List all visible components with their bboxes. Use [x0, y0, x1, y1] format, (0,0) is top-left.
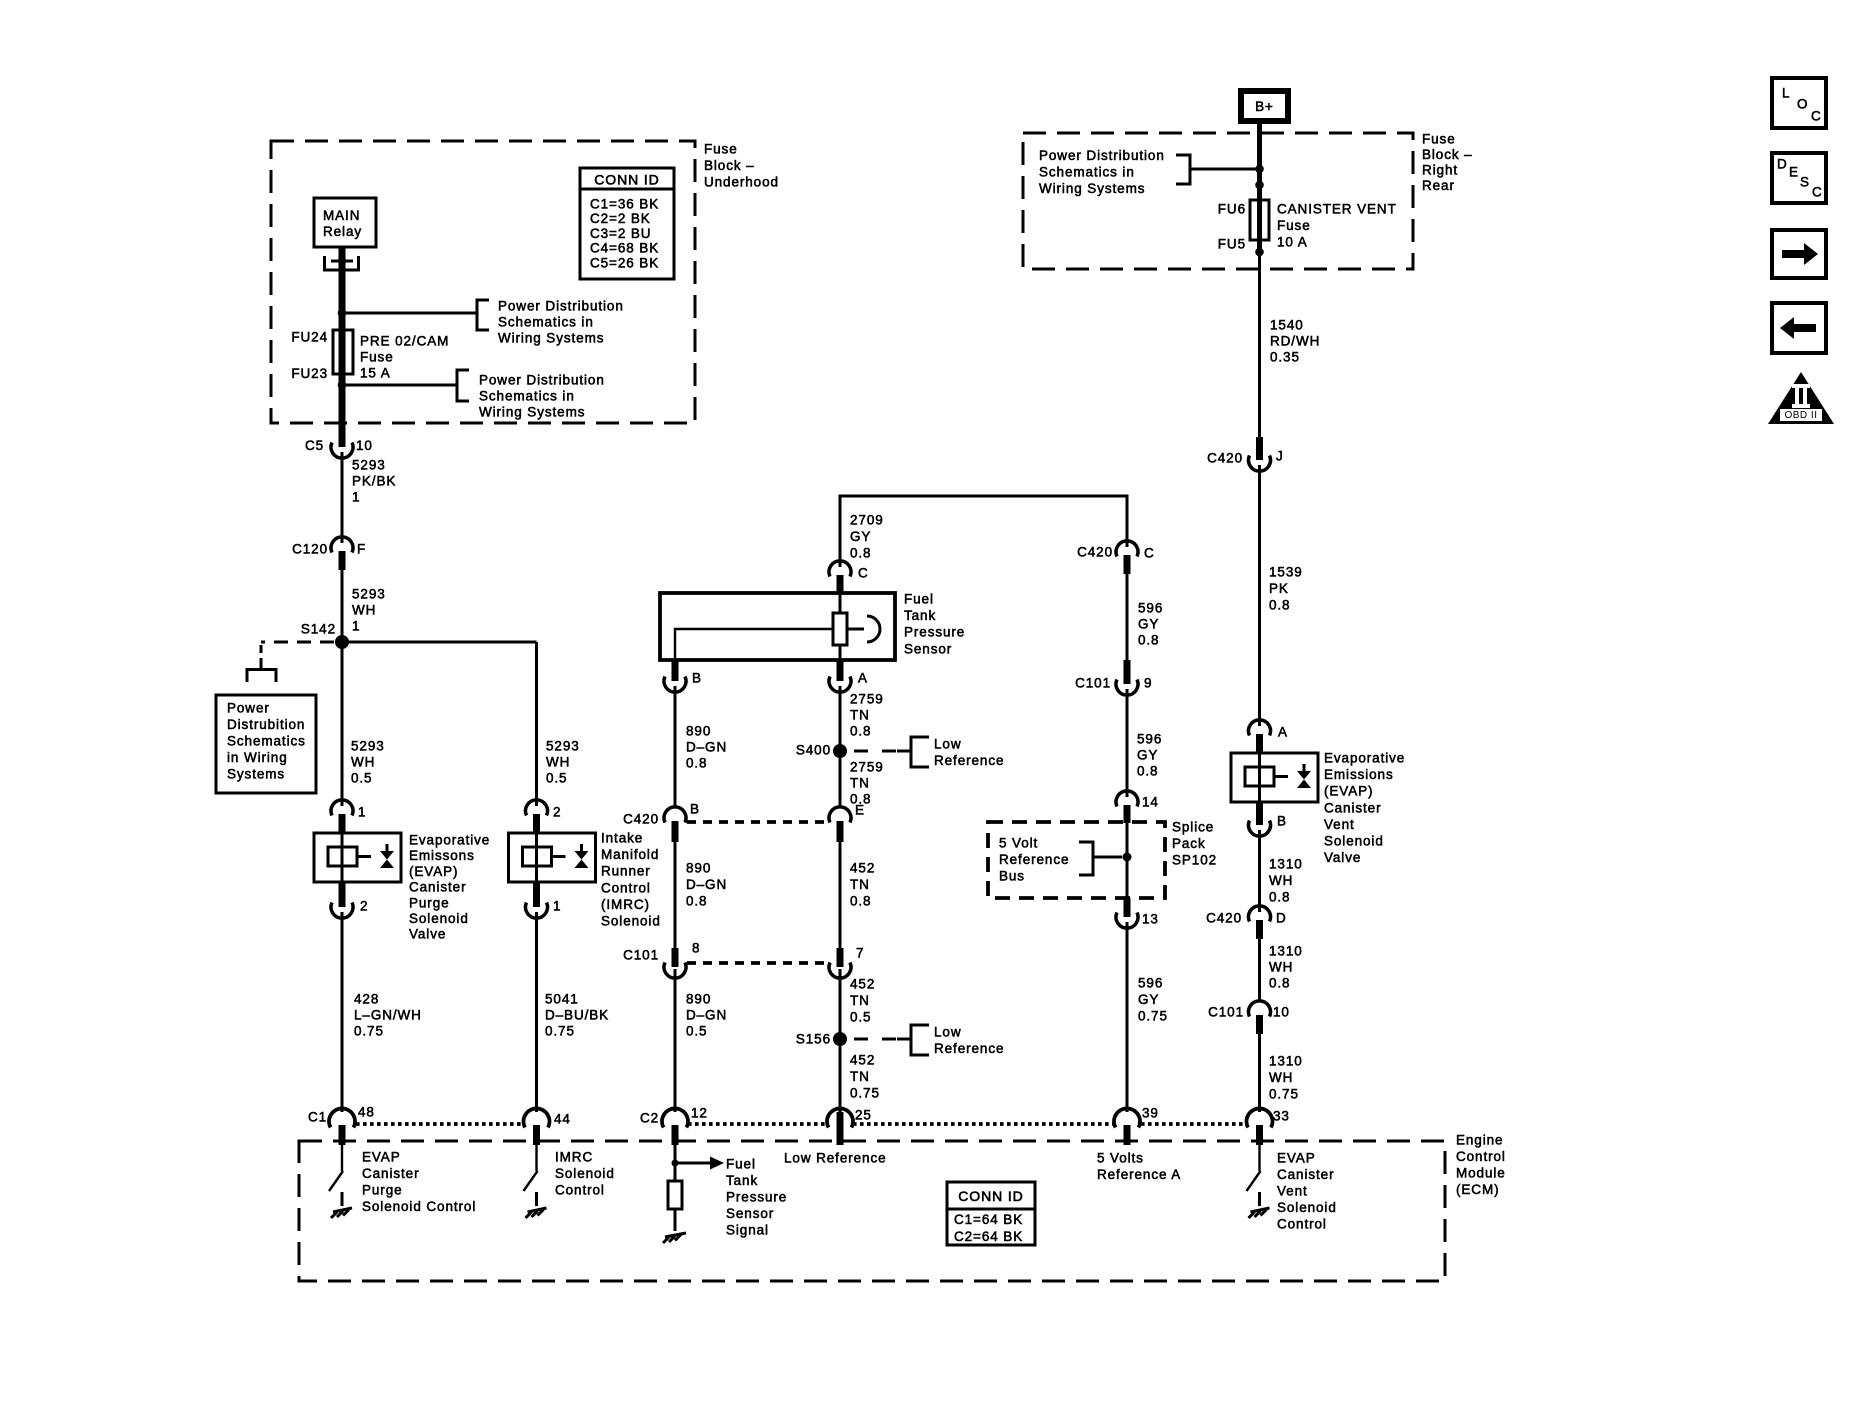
svg-text:0.75: 0.75 [545, 1024, 575, 1039]
ground vent driver [1249, 1208, 1270, 1218]
CONN ID table (underhood) [580, 168, 674, 279]
svg-text:44: 44 [554, 1112, 571, 1127]
svg-text:C: C [1811, 109, 1822, 124]
svg-text:Solenoid: Solenoid [1277, 1200, 1337, 1215]
svg-text:(ECM): (ECM) [1456, 1182, 1500, 1197]
svg-text:Reference: Reference [999, 852, 1069, 867]
svg-text:TN: TN [850, 877, 870, 892]
wire through splice box [1126, 823, 1129, 898]
connector sensor pin A [837, 660, 844, 681]
svg-text:C420: C420 [1077, 545, 1113, 560]
svg-text:Reference A: Reference A [1097, 1167, 1181, 1182]
svg-text:452: 452 [850, 977, 875, 992]
svg-text:890: 890 [686, 724, 711, 739]
svg-text:Bus: Bus [999, 869, 1025, 884]
svg-text:5293: 5293 [546, 739, 580, 754]
switch EVAP vent driver [1247, 1145, 1261, 1191]
svg-text:GY: GY [1138, 617, 1159, 632]
svg-text:0.75: 0.75 [1269, 1087, 1299, 1102]
svg-text:Purge: Purge [362, 1183, 403, 1198]
icon DESC box [1772, 153, 1826, 203]
sensor box fuel tank pressure sensor [660, 593, 895, 660]
svg-text:Control: Control [601, 880, 651, 895]
svg-text:Canister: Canister [1324, 800, 1381, 815]
svg-text:TN: TN [850, 993, 870, 1008]
svg-text:(EVAP): (EVAP) [409, 864, 458, 879]
ground purge driver [331, 1208, 352, 1218]
svg-text:0.8: 0.8 [850, 894, 871, 909]
svg-text:Evaporative: Evaporative [409, 833, 490, 848]
svg-text:C420: C420 [1207, 451, 1243, 466]
svg-text:(IMRC): (IMRC) [601, 897, 650, 912]
svg-text:Engine: Engine [1456, 1133, 1503, 1148]
svg-text:Right: Right [1422, 163, 1458, 178]
svg-text:Evaporative: Evaporative [1324, 751, 1405, 766]
wire B+ feed [1257, 121, 1262, 200]
valve symbol vent [1303, 764, 1306, 772]
wire fuse to C420 J [1257, 240, 1262, 255]
svg-text:C1=64 BK: C1=64 BK [954, 1212, 1023, 1227]
svg-text:S156: S156 [796, 1032, 831, 1047]
connector C101 pin 8 [672, 948, 679, 967]
svg-text:39: 39 [1142, 1106, 1159, 1121]
svg-text:WH: WH [352, 603, 376, 618]
relay terminal bracket [323, 256, 360, 270]
svg-text:5293: 5293 [352, 587, 386, 602]
svg-text:428: 428 [354, 992, 379, 1007]
svg-text:5 Volts: 5 Volts [1097, 1151, 1144, 1166]
connector C420 pin B [664, 807, 686, 823]
svg-text:0.75: 0.75 [850, 1086, 880, 1101]
bracket power distribution right [1176, 155, 1190, 184]
svg-text:B: B [690, 802, 700, 817]
svg-text:0.8: 0.8 [686, 894, 707, 909]
svg-text:Fuse: Fuse [1422, 132, 1456, 147]
connector C420 pin J [1256, 437, 1263, 460]
resistor input pulldown [668, 1181, 682, 1209]
wire dashed connector line B-E [687, 820, 829, 824]
fuse FU24/FU23 PRE 02/CAM 15A [333, 330, 353, 374]
pin 44 [524, 1108, 550, 1127]
svg-text:C1: C1 [308, 1110, 327, 1125]
coil purge solenoid [328, 847, 357, 866]
wire 5041 D-BU/BK [535, 912, 538, 1112]
arrow signal [675, 1162, 711, 1165]
svg-text:PRE 02/CAM: PRE 02/CAM [360, 334, 449, 349]
wire 1310 WH 0.8 second [1258, 939, 1261, 1002]
svg-text:CONN ID: CONN ID [958, 1188, 1023, 1204]
wire dotted pin row C1 [356, 1122, 523, 1126]
svg-text:Splice: Splice [1172, 820, 1214, 835]
svg-text:Pressure: Pressure [904, 625, 965, 640]
svg-text:Solenoid: Solenoid [409, 911, 469, 926]
svg-text:5 Volt: 5 Volt [999, 836, 1038, 851]
svg-text:C101: C101 [1208, 1005, 1244, 1020]
svg-text:Pressure: Pressure [726, 1190, 787, 1205]
svg-text:S400: S400 [796, 743, 831, 758]
svg-text:WH: WH [1269, 1070, 1293, 1085]
svg-text:D–BU/BK: D–BU/BK [545, 1008, 609, 1023]
svg-text:Power Distribution: Power Distribution [1039, 148, 1165, 163]
svg-text:0.5: 0.5 [546, 771, 567, 786]
svg-text:MAIN: MAIN [323, 208, 360, 223]
svg-text:TN: TN [850, 708, 870, 723]
svg-text:Intake: Intake [601, 831, 643, 846]
svg-text:B: B [1277, 814, 1287, 829]
svg-text:Low: Low [934, 737, 961, 752]
svg-text:WH: WH [351, 755, 375, 770]
wire dashed reference S400 [854, 750, 911, 753]
splice S400 [833, 744, 847, 758]
svg-text:0.8: 0.8 [1138, 633, 1159, 648]
wire to power distribution callout 1 [342, 312, 477, 315]
svg-text:C5: C5 [305, 438, 324, 453]
svg-text:Fuse: Fuse [360, 350, 394, 365]
icon back arrow box [1772, 303, 1826, 353]
svg-text:C1=36 BK: C1=36 BK [590, 197, 659, 212]
connector C5 pin 10 [331, 443, 353, 459]
svg-text:Sensor: Sensor [726, 1206, 774, 1221]
connector C101 pin 7 [837, 948, 844, 967]
svg-text:Systems: Systems [227, 767, 285, 782]
wire dotted pin row C2 [688, 1122, 1246, 1126]
bracket callout 1 [477, 300, 489, 330]
svg-text:0.8: 0.8 [1269, 890, 1290, 905]
wire top link sensor C to C420-C [840, 496, 1127, 567]
svg-text:0.5: 0.5 [850, 1010, 871, 1025]
power distrubition reference box [216, 695, 316, 793]
connector C101 pin 10 [1249, 1001, 1271, 1017]
wire 5293 WH 1 [341, 570, 344, 642]
svg-text:E: E [1789, 165, 1799, 180]
wire inside sensor to resistor [839, 594, 842, 613]
svg-text:452: 452 [850, 861, 875, 876]
svg-text:Control: Control [1277, 1217, 1327, 1232]
svg-text:1: 1 [358, 805, 366, 820]
svg-text:2: 2 [553, 805, 561, 820]
icon forward arrow box [1772, 230, 1826, 278]
icon OBD II triangle [1768, 372, 1834, 424]
svg-text:FU6: FU6 [1218, 202, 1246, 217]
wire dashed connector line 8-7 [687, 961, 829, 965]
off-page fork symbol [247, 661, 276, 682]
svg-text:Block –: Block – [704, 158, 755, 173]
coil vent solenoid [1245, 767, 1274, 786]
node signal junction [672, 1160, 679, 1167]
svg-text:Wiring Systems: Wiring Systems [1039, 181, 1145, 196]
connector purge pin 2 [339, 882, 346, 907]
svg-text:1: 1 [553, 899, 561, 914]
svg-text:D–GN: D–GN [686, 740, 727, 755]
svg-text:Canister: Canister [362, 1166, 419, 1181]
svg-text:0.8: 0.8 [1137, 764, 1158, 779]
svg-text:1539: 1539 [1269, 565, 1303, 580]
connector C420 pin D [1249, 906, 1271, 922]
wire 2759 TN 0.8 upper [839, 686, 842, 806]
svg-text:FU5: FU5 [1218, 237, 1246, 252]
svg-text:C5=26 BK: C5=26 BK [590, 255, 659, 270]
svg-text:Power: Power [227, 701, 270, 716]
ground IMRC driver [526, 1208, 547, 1218]
connector IMRC pin 2 [526, 800, 548, 816]
coil IMRC solenoid [523, 847, 552, 866]
svg-text:Low: Low [934, 1025, 961, 1040]
svg-text:EVAP: EVAP [1277, 1151, 1316, 1166]
svg-text:Rear: Rear [1422, 178, 1455, 193]
svg-text:PK: PK [1269, 581, 1289, 596]
svg-text:TN: TN [850, 1069, 870, 1084]
svg-text:890: 890 [686, 861, 711, 876]
connector purge pin 1 [331, 800, 353, 816]
svg-text:E: E [855, 803, 865, 818]
wire 5293 PK/BK [341, 452, 344, 543]
svg-text:SP102: SP102 [1172, 853, 1217, 868]
splice S142 [335, 635, 349, 649]
svg-text:Pack: Pack [1172, 836, 1206, 851]
connector C420 pin C [1116, 541, 1138, 557]
svg-text:C: C [1144, 546, 1155, 561]
svg-text:Wiring Systems: Wiring Systems [479, 405, 585, 420]
ECM dashed box [299, 1141, 1445, 1281]
wire 5293 WH 0.5 right [535, 642, 538, 806]
svg-text:Low Reference: Low Reference [784, 1151, 887, 1166]
svg-text:WH: WH [546, 755, 570, 770]
svg-text:25: 25 [855, 1108, 872, 1123]
svg-text:596: 596 [1138, 601, 1163, 616]
svg-text:F: F [357, 542, 366, 557]
svg-text:Distrubition: Distrubition [227, 717, 305, 732]
svg-text:TN: TN [850, 776, 870, 791]
svg-text:B: B [692, 671, 702, 686]
svg-text:0.5: 0.5 [351, 771, 372, 786]
svg-text:5293: 5293 [351, 739, 385, 754]
connector IMRC pin 1 [533, 882, 540, 907]
svg-text:1: 1 [352, 490, 360, 505]
connector vent pin B [1256, 802, 1263, 825]
svg-text:Emissions: Emissions [1324, 767, 1394, 782]
svg-text:D–GN: D–GN [686, 877, 727, 892]
svg-text:IMRC: IMRC [555, 1150, 593, 1165]
svg-text:Control: Control [1456, 1149, 1506, 1164]
svg-text:FU23: FU23 [291, 366, 328, 381]
fuse block right rear dashed box [1023, 133, 1413, 269]
svg-text:1540: 1540 [1270, 318, 1304, 333]
wire 596 GY 0.75 [1126, 922, 1129, 1112]
svg-text:10: 10 [356, 438, 373, 453]
node junction above fuse FU6 [1255, 181, 1264, 190]
pin C1-48 [329, 1108, 355, 1127]
wire main feed (thick) from relay through fuse [339, 247, 346, 447]
svg-text:Wiring Systems: Wiring Systems [498, 331, 604, 346]
connector vent pin A [1249, 720, 1271, 736]
connector sensor pin B [672, 660, 679, 681]
wire 452 TN 0.8 [839, 842, 842, 958]
svg-text:Canister: Canister [1277, 1167, 1334, 1182]
svg-text:Tank: Tank [904, 608, 936, 623]
wire internal B branch [675, 629, 833, 660]
svg-text:9: 9 [1144, 676, 1152, 691]
svg-text:Purge: Purge [409, 895, 450, 910]
pin 39 [1114, 1108, 1140, 1127]
bracket low reference S156 [911, 1025, 929, 1055]
svg-text:C420: C420 [623, 812, 659, 827]
relay MAIN Relay box [314, 198, 376, 247]
svg-text:Fuel: Fuel [904, 592, 934, 607]
svg-text:O: O [1797, 97, 1808, 112]
fuse FU6/FU5 CANISTER VENT 10A [1250, 200, 1269, 240]
solenoid EVAP vent valve box [1231, 753, 1318, 802]
splice pack SP102 dashed box [988, 822, 1165, 898]
svg-text:Underhood: Underhood [704, 175, 779, 190]
icon LOC box [1772, 78, 1826, 128]
svg-text:0.75: 0.75 [354, 1024, 384, 1039]
CONN ID table (ECM) [947, 1182, 1035, 1245]
switch IMRC driver [524, 1145, 538, 1191]
svg-text:0.75: 0.75 [1138, 1009, 1168, 1024]
svg-text:D: D [1777, 157, 1788, 172]
svg-text:C3=2 BU: C3=2 BU [590, 226, 651, 241]
svg-text:2: 2 [360, 899, 368, 914]
svg-text:2709: 2709 [850, 513, 884, 528]
solenoid IMRC box [509, 833, 596, 882]
svg-text:0.8: 0.8 [850, 546, 871, 561]
wire 596 GY 0.8 upper [1126, 574, 1129, 660]
connector C420 pin E [829, 807, 851, 823]
svg-text:Solenoid Control: Solenoid Control [362, 1199, 476, 1214]
wire S142 to IMRC branch [342, 641, 537, 644]
svg-text:Power Distribution: Power Distribution [498, 299, 624, 314]
svg-text:Schematics: Schematics [227, 734, 306, 749]
svg-text:C101: C101 [1075, 676, 1111, 691]
bracket low reference S400 [911, 737, 929, 767]
svg-text:Schematics in: Schematics in [498, 315, 594, 330]
svg-text:Runner: Runner [601, 864, 651, 879]
svg-text:C120: C120 [292, 542, 328, 557]
svg-text:GY: GY [850, 529, 871, 544]
svg-text:1310: 1310 [1269, 857, 1303, 872]
svg-text:L–GN/WH: L–GN/WH [354, 1008, 422, 1023]
svg-text:14: 14 [1142, 795, 1159, 810]
svg-text:Manifold: Manifold [601, 847, 659, 862]
svg-text:7: 7 [856, 946, 864, 961]
svg-text:Signal: Signal [726, 1223, 769, 1238]
svg-text:452: 452 [850, 1053, 875, 1068]
svg-text:13: 13 [1142, 912, 1159, 927]
wire 5293 WH 0.5 left [341, 642, 344, 806]
svg-text:1310: 1310 [1269, 1054, 1303, 1069]
node junction below fuse FU23 [338, 381, 347, 390]
svg-text:0.8: 0.8 [686, 756, 707, 771]
wire 452 TN 0.75 [839, 1039, 842, 1112]
ground input pulldown [663, 1233, 686, 1243]
svg-text:Block –: Block – [1422, 147, 1473, 162]
node junction above fuse FU24 [338, 309, 347, 318]
svg-text:Emissons: Emissons [409, 848, 475, 863]
svg-text:C2=2 BK: C2=2 BK [590, 211, 651, 226]
svg-text:5293: 5293 [352, 458, 386, 473]
svg-text:Canister: Canister [409, 880, 466, 895]
svg-text:Relay: Relay [323, 224, 362, 239]
svg-text:Vent: Vent [1277, 1184, 1308, 1199]
svg-text:Tank: Tank [726, 1173, 758, 1188]
connector C101 pin 9 [1124, 660, 1131, 684]
svg-text:WH: WH [1269, 960, 1293, 975]
wire 452 TN 0.5 [839, 969, 842, 1039]
svg-text:5041: 5041 [545, 992, 579, 1007]
svg-text:Solenoid: Solenoid [1324, 834, 1384, 849]
svg-text:48: 48 [358, 1105, 375, 1120]
svg-text:Sensor: Sensor [904, 641, 952, 656]
svg-text:Valve: Valve [409, 927, 446, 942]
svg-text:FU24: FU24 [291, 330, 328, 345]
node junction at bracket [1255, 165, 1264, 174]
svg-text:Valve: Valve [1324, 850, 1361, 865]
wire 1310 WH 0.75 [1258, 1034, 1261, 1112]
svg-text:0.8: 0.8 [1269, 598, 1290, 613]
svg-text:15 A: 15 A [360, 366, 391, 381]
svg-text:Fuel: Fuel [726, 1157, 756, 1172]
wire 890 D-GN 0.8 upper [674, 686, 677, 808]
svg-text:WH: WH [1269, 873, 1293, 888]
svg-text:RD/WH: RD/WH [1270, 334, 1320, 349]
wire 890 D-GN 0.8 mid [674, 842, 677, 958]
svg-text:C101: C101 [623, 948, 659, 963]
svg-text:PK/BK: PK/BK [352, 474, 396, 489]
svg-text:EVAP: EVAP [362, 1150, 401, 1165]
svg-text:A: A [858, 671, 868, 686]
svg-text:C2=64 BK: C2=64 BK [954, 1229, 1023, 1244]
svg-text:C420: C420 [1206, 911, 1242, 926]
svg-text:Vent: Vent [1324, 817, 1355, 832]
connector splice pin 13 [1124, 898, 1131, 917]
wire 890 D-GN 0.5 [674, 969, 677, 1112]
connector sensor pin C [829, 561, 851, 577]
svg-text:596: 596 [1137, 732, 1162, 747]
svg-text:0.5: 0.5 [686, 1024, 707, 1039]
svg-text:10: 10 [1273, 1005, 1290, 1020]
switch EVAP purge driver [329, 1145, 343, 1191]
svg-text:C: C [858, 566, 869, 581]
svg-text:Schematics in: Schematics in [1039, 165, 1135, 180]
svg-text:L: L [1782, 86, 1790, 101]
battery B+ box [1241, 91, 1288, 121]
svg-text:Solenoid: Solenoid [555, 1166, 615, 1181]
wire bracket to main feed [1190, 168, 1260, 171]
wire dashed reference S156 [854, 1038, 911, 1041]
svg-text:C: C [1812, 185, 1823, 200]
pin 33 [1246, 1108, 1272, 1127]
svg-text:B+: B+ [1255, 99, 1274, 114]
svg-text:D: D [1276, 911, 1287, 926]
connector C120 pin F [331, 537, 353, 553]
svg-text:Module: Module [1456, 1166, 1506, 1181]
svg-text:in Wiring: in Wiring [227, 750, 288, 765]
svg-text:Schematics in: Schematics in [479, 389, 575, 404]
wire sensor signal input [674, 1145, 677, 1181]
svg-text:890: 890 [686, 992, 711, 1007]
bracket callout 2 [457, 370, 469, 401]
svg-text:GY: GY [1138, 992, 1159, 1007]
wire 428 L-GN/WH [341, 912, 344, 1112]
svg-text:0.8: 0.8 [850, 724, 871, 739]
wiper pickup symbol [847, 628, 864, 631]
svg-text:Fuse: Fuse [1277, 218, 1311, 233]
svg-text:596: 596 [1138, 976, 1163, 991]
bracket 5 volt reference bus [1079, 842, 1122, 875]
splice S156 [833, 1032, 847, 1046]
svg-text:Fuse: Fuse [704, 142, 738, 157]
valve symbol IMRC [580, 844, 583, 852]
